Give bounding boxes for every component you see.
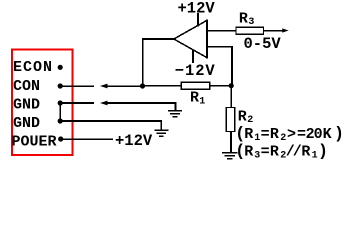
wire R3 to input arrow	[264, 30, 284, 32]
ground symbol 2	[154, 130, 168, 136]
wire node A to R1	[143, 85, 182, 87]
wire GND upper stub	[60, 102, 94, 104]
svg-text:1: 1	[199, 96, 205, 107]
wire op-amp to -12V rail	[192, 49, 194, 63]
svg-text:POUER: POUER	[12, 133, 57, 150]
resistor R1	[181, 82, 210, 89]
arrow into GND upper	[100, 101, 108, 106]
svg-text:3: 3	[248, 17, 254, 28]
wire inverting input	[207, 47, 232, 86]
svg-text:CON: CON	[13, 78, 40, 95]
svg-text:R: R	[239, 10, 248, 27]
wire node B down to R2	[230, 86, 232, 108]
wire feedback to CON arrow	[107, 85, 143, 87]
resistor R2	[226, 108, 235, 132]
pin dot GND lower	[58, 118, 63, 123]
wire non-inverting input to R3	[207, 30, 237, 32]
wire GND upper to ground symbol	[107, 103, 176, 110]
svg-text:2: 2	[247, 115, 253, 126]
svg-text:GND: GND	[13, 115, 40, 132]
svg-text:R: R	[190, 90, 199, 107]
wire op-amp output (apex) down to feedback node	[143, 39, 174, 86]
arrow into CON	[100, 84, 108, 89]
wire R1 to node B	[210, 85, 232, 87]
wire GND tie (between GND pins)	[59, 103, 61, 121]
ground symbol 3	[222, 153, 238, 159]
pin dot CON	[58, 83, 63, 88]
wire POUER to +12V	[61, 138, 113, 140]
connector block J1	[12, 50, 73, 156]
pin dot ECON	[58, 65, 63, 70]
svg-text:+12V: +12V	[178, 0, 216, 18]
resistor R3	[236, 27, 264, 34]
arrow 0-5V input	[282, 28, 289, 32]
pin dot GND upper	[58, 100, 63, 105]
op-amp U1	[174, 20, 207, 57]
wire CON stub	[60, 85, 94, 87]
svg-text:+12V: +12V	[115, 132, 153, 150]
svg-text:(R3=R2//R1): (R3=R2//R1)	[235, 141, 328, 161]
node B (inverting input / R1 / R2 junction)	[229, 83, 234, 88]
wire R2 to ground symbol	[230, 132, 232, 153]
wire GND lower to ground symbol	[60, 121, 161, 130]
ground symbol 1	[168, 111, 182, 117]
svg-text:ECON: ECON	[13, 59, 53, 76]
svg-text:R: R	[238, 108, 247, 125]
pin dot POUER	[58, 136, 63, 141]
svg-text:0-5V: 0-5V	[244, 35, 282, 53]
svg-text:−12V: −12V	[175, 62, 216, 80]
wire +12V rail to op-amp	[197, 13, 199, 26]
node A (output/feedback junction)	[140, 83, 145, 88]
svg-text:GND: GND	[13, 97, 40, 114]
